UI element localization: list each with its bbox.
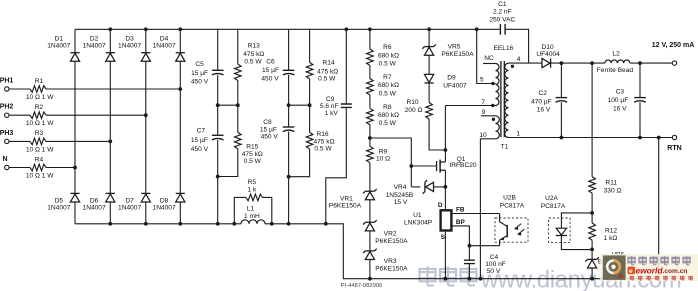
junction node B feedback: [590, 248, 594, 252]
wire R9 to VR1: [369, 163, 371, 192]
svg-text:450 V: 450 V: [191, 146, 209, 153]
svg-text:VR1: VR1: [340, 195, 353, 202]
wire tie C6-R14: [289, 104, 310, 106]
wire pin10 to bottom line: [479, 139, 481, 279]
svg-text:VR4: VR4: [394, 184, 407, 191]
wire R7-R8: [369, 95, 371, 108]
svg-text:475 kΩ: 475 kΩ: [313, 138, 334, 145]
svg-text:0.5 W: 0.5 W: [244, 158, 262, 165]
resistor R10: [426, 103, 433, 120]
svg-text:450 V: 450 V: [261, 75, 279, 82]
diode D5: [70, 192, 79, 194]
svg-text:1N4007: 1N4007: [118, 43, 141, 50]
wire R16 bottom join: [289, 149, 310, 177]
svg-text:450 V: 450 V: [261, 134, 279, 141]
wire gate wire: [411, 165, 436, 167]
svg-text:250 VAC: 250 VAC: [489, 16, 515, 23]
wire PH3 to R3: [9, 140, 30, 142]
svg-text:475 kΩ: 475 kΩ: [317, 68, 338, 75]
zener VR1: [365, 190, 374, 192]
wire T1 pin 5 to top rail: [477, 29, 496, 83]
svg-text:1 k: 1 k: [248, 186, 257, 193]
inductor L2 coil: [605, 60, 630, 63]
wire D5 anode down: [74, 202, 76, 224]
resistor R9: [367, 146, 374, 163]
terminal 12V output: [672, 61, 676, 65]
svg-text:R4: R4: [35, 156, 44, 163]
svg-text:R13: R13: [248, 43, 260, 50]
resistor R11: [589, 177, 596, 194]
zener VR2: [365, 221, 374, 223]
junction top rail node D2: [108, 27, 112, 31]
wire R5 left leg: [234, 197, 246, 223]
wire top rail left of C1: [75, 28, 500, 30]
resistor R2: [30, 112, 46, 119]
wire C2 top lead: [560, 63, 562, 98]
wire C6 top: [288, 29, 290, 70]
svg-text:1N4007: 1N4007: [153, 43, 176, 50]
resistor R14: [306, 62, 313, 79]
svg-text:1N4007: 1N4007: [83, 43, 106, 50]
svg-text:16 V: 16 V: [613, 105, 627, 112]
svg-text:UF4004: UF4004: [536, 51, 560, 58]
junction node N-bridge: [73, 166, 77, 170]
watermark dianyuan text: [420, 267, 682, 291]
svg-text:330 Ω: 330 Ω: [604, 188, 622, 195]
svg-text:200 Ω: 200 Ω: [405, 107, 423, 114]
wire VR4 anode to source: [434, 186, 446, 188]
junction node RTN drop: [657, 136, 661, 140]
svg-text:1 kV: 1 kV: [325, 110, 339, 117]
svg-text:10 Ω 1 W: 10 Ω 1 W: [26, 94, 54, 101]
svg-text:10 Ω: 10 Ω: [376, 156, 390, 163]
svg-text:IRFBC20: IRFBC20: [449, 162, 476, 169]
resistor R15: [235, 132, 242, 149]
svg-text:100 nF: 100 nF: [485, 261, 506, 268]
wire R6 top: [369, 29, 371, 49]
svg-text:R5: R5: [248, 179, 257, 186]
svg-text:PC817A: PC817A: [541, 203, 566, 210]
wire R1 to bridge column: [46, 88, 180, 90]
svg-text:0.5 W: 0.5 W: [314, 146, 332, 153]
junction node VR4/source: [444, 185, 448, 189]
wire R5 right leg: [263, 197, 272, 223]
svg-text:RTN: RTN: [667, 145, 681, 152]
wire C4 top: [468, 246, 470, 261]
junction node C4 bottom: [468, 277, 472, 281]
svg-text:1N4007: 1N4007: [118, 204, 141, 211]
svg-text:680 kΩ: 680 kΩ: [378, 52, 399, 59]
junction node C2 bottom: [560, 136, 564, 140]
svg-text:D9: D9: [447, 74, 456, 81]
svg-text:R9: R9: [379, 148, 388, 155]
wire U2A cathode to node B: [561, 236, 592, 250]
wire gate branch to VR4 cathode: [411, 186, 420, 188]
wire R10 to drain node: [429, 119, 445, 150]
junction top rail node D4: [178, 27, 182, 31]
junction bottom rail node D6: [108, 222, 112, 226]
capacitor C6 symbol: [283, 69, 295, 71]
wire L2 to output terminal: [630, 62, 672, 64]
wire T1 pin 4 to D10: [509, 62, 543, 64]
wire tie C5-R13: [218, 104, 238, 106]
diode D8: [176, 192, 185, 194]
wire node A to U2A anode: [561, 213, 592, 228]
junction node A feedback: [590, 211, 594, 215]
resistor R7: [367, 79, 374, 96]
junction bottom rail node D8: [178, 222, 182, 226]
capacitor C1: [500, 24, 505, 35]
svg-text:R3: R3: [35, 130, 44, 137]
junction node R8/R9 tap: [368, 136, 372, 140]
junction bottom rail node D7: [144, 222, 148, 226]
junction node BP/C4: [468, 244, 472, 248]
svg-text:U2A: U2A: [545, 195, 558, 202]
svg-text:.com.cn: .com.cn: [663, 268, 688, 275]
svg-text:C3: C3: [616, 88, 625, 95]
svg-text:PI-4487-082906: PI-4487-082906: [341, 283, 383, 289]
svg-text:1N4007: 1N4007: [83, 204, 106, 211]
diode D9: [425, 82, 434, 84]
svg-text:BP: BP: [456, 219, 466, 226]
resistor R16: [306, 132, 313, 149]
terminal RTN: [672, 135, 676, 139]
wire C8 down to rail: [288, 132, 290, 224]
terminal PH1: [5, 87, 9, 91]
junction node C8 rail: [287, 222, 291, 226]
svg-text:e: e: [629, 268, 633, 275]
svg-text:R2: R2: [35, 104, 44, 111]
svg-text:0.5 W: 0.5 W: [379, 90, 397, 97]
svg-text:9: 9: [482, 109, 486, 116]
svg-text:1N4007: 1N4007: [153, 204, 176, 211]
junction node C7/R15 join: [216, 175, 220, 179]
zener VR3: [365, 250, 374, 252]
svg-text:R11: R11: [605, 180, 617, 187]
junction node C5/C7: [216, 103, 220, 107]
svg-text:10: 10: [479, 132, 487, 139]
wire C9 top: [345, 29, 347, 104]
svg-text:450 V: 450 V: [191, 78, 209, 85]
svg-text:R16: R16: [316, 131, 328, 138]
wire PH2 to R2: [9, 114, 30, 116]
svg-text:PC817A: PC817A: [500, 203, 525, 210]
svg-text:C6: C6: [266, 59, 275, 66]
wire C7 down to rail: [217, 140, 219, 224]
svg-text:15 µF: 15 µF: [191, 137, 208, 144]
wire R13 top: [237, 29, 239, 64]
svg-text:C5: C5: [195, 61, 204, 68]
svg-text:R14: R14: [323, 60, 335, 67]
wire D2 cathode up: [109, 29, 111, 52]
wire primary negative rail left: [75, 223, 241, 225]
wire VR6 to bottom line: [591, 268, 593, 279]
wire top rail through C1 to secondary: [505, 29, 528, 63]
wire R14 to R16: [309, 79, 311, 132]
svg-text:1: 1: [516, 131, 520, 138]
wire R6-R7: [369, 66, 371, 79]
svg-text:PH1: PH1: [0, 77, 13, 84]
svg-text:U1: U1: [413, 212, 422, 219]
wire R13 to R15: [237, 81, 239, 133]
svg-text:475 kΩ: 475 kΩ: [243, 51, 264, 58]
svg-text:U2B: U2B: [503, 194, 516, 201]
junction node S bottom: [444, 277, 448, 281]
svg-text:15 µF: 15 µF: [262, 67, 279, 74]
svg-text:D10: D10: [542, 44, 554, 51]
wire bridge column 3 middle: [145, 61, 147, 193]
junction node C3 bottom: [638, 136, 642, 140]
junction node R11 top: [590, 61, 594, 65]
zener VR6: [588, 258, 597, 260]
T1 polarity dots: [491, 82, 494, 85]
resistor R13: [235, 64, 242, 81]
zener VR5: [425, 46, 434, 48]
T1 primary winding 2-7: [496, 64, 500, 106]
wire VR1-VR2: [369, 200, 371, 223]
svg-text:D1: D1: [55, 35, 64, 42]
svg-text:EEL16: EEL16: [493, 45, 513, 52]
svg-text:1 kΩ: 1 kΩ: [604, 235, 618, 242]
svg-text:P6KE150A: P6KE150A: [375, 238, 408, 245]
svg-text:5.6 nF: 5.6 nF: [320, 103, 339, 110]
capacitor C7 symbol: [212, 134, 224, 136]
svg-text:R1: R1: [35, 78, 44, 85]
wire BP node to opto emitter: [469, 245, 499, 247]
wire D8 anode down: [179, 202, 181, 224]
diode D6: [106, 192, 115, 194]
svg-text:680 kΩ: 680 kΩ: [378, 82, 399, 89]
svg-text:0.5 W: 0.5 W: [244, 59, 262, 66]
wire R15 bottom join: [218, 149, 238, 177]
junction node C6/C8: [287, 103, 291, 107]
junction node C9 top rail: [344, 27, 348, 31]
svg-text:100 µF: 100 µF: [608, 97, 629, 104]
junction node L1/R5 right: [270, 222, 274, 226]
wire primary negative rail to bottom line: [265, 224, 659, 279]
svg-text:15 µF: 15 µF: [260, 127, 277, 134]
wire C2 bottom lead: [560, 102, 562, 137]
junction node VR6 bottom: [590, 277, 594, 281]
svg-text:UF4007: UF4007: [443, 82, 467, 89]
junction top rail node D3: [144, 27, 148, 31]
wire bridge column 1 middle: [74, 61, 76, 193]
svg-text:12 V, 250 mA: 12 V, 250 mA: [652, 42, 695, 49]
svg-text:7: 7: [481, 99, 485, 106]
junction node C7 rail: [216, 222, 220, 226]
resistor R12: [589, 223, 596, 240]
svg-text:D3: D3: [125, 35, 134, 42]
svg-text:VR3: VR3: [384, 258, 397, 265]
wire R11 to R12: [591, 193, 593, 223]
junction node VR3 bottom: [368, 277, 372, 281]
svg-text:VR2: VR2: [384, 231, 397, 238]
capacitor C8 symbol: [283, 126, 295, 128]
junction node C2 top: [560, 61, 564, 65]
capacitor C2 symbol: [556, 97, 568, 99]
wire C3 bottom lead: [639, 102, 641, 137]
diode D1: [70, 52, 79, 54]
wire VR2-VR3: [369, 231, 371, 251]
junction node C8/R16 join: [287, 175, 291, 179]
wire D4 cathode up: [179, 29, 181, 52]
wire T1 pin 9 stub: [481, 115, 496, 117]
capacitor C5 symbol: [212, 69, 224, 71]
T1 core: [501, 61, 504, 137]
wire VR3 to bottom line: [369, 260, 371, 279]
junction node PH2-bridge: [144, 113, 148, 117]
junction node VR5 top rail: [427, 27, 431, 31]
svg-text:L2: L2: [612, 51, 620, 58]
zener VR4: [424, 182, 426, 191]
svg-text:4: 4: [517, 56, 521, 63]
resistor R5: [246, 194, 263, 201]
diode D3: [141, 52, 150, 54]
svg-text:1N4007: 1N4007: [47, 43, 70, 50]
terminal PH2: [5, 113, 9, 117]
wire T1 pin 10 stub: [480, 138, 495, 140]
T1 secondary winding 4-1: [505, 63, 509, 137]
wire C5 to C7: [217, 75, 219, 135]
wire drain stub: [444, 150, 446, 162]
svg-text:PH2: PH2: [0, 104, 13, 111]
diode D7: [141, 192, 150, 194]
resistor R1: [30, 86, 46, 93]
wire R2 to bridge column: [46, 114, 146, 116]
wire R8-R9: [369, 125, 371, 146]
wire source stub: [444, 170, 446, 187]
svg-text:LNK304P: LNK304P: [404, 219, 433, 226]
inductor L1 coil: [241, 220, 265, 224]
capacitor C4: [464, 260, 475, 263]
svg-text:C1: C1: [498, 1, 507, 8]
resistor R6: [367, 49, 374, 66]
svg-text:D4: D4: [160, 35, 169, 42]
svg-text:S: S: [441, 234, 446, 241]
capacitor C3 symbol: [634, 97, 646, 99]
wire D10 to L2: [551, 62, 605, 64]
LED U2A symbol: [556, 228, 566, 235]
svg-text:P6KE150A: P6KE150A: [375, 265, 408, 272]
terminal N: [5, 165, 9, 169]
wire N to R4: [9, 167, 30, 169]
svg-text:16 V: 16 V: [537, 107, 551, 114]
wire T1 pin 7 stub: [445, 105, 495, 107]
wire C9 bottom jog to rail: [326, 107, 347, 223]
wire secondary return rail: [509, 137, 673, 139]
svg-text:NC: NC: [484, 55, 494, 62]
T1 bias winding 9-10: [496, 116, 500, 139]
wire T1 NC pin stub: [483, 63, 496, 65]
svg-text:15 V: 15 V: [394, 199, 408, 206]
junction node C9 rail: [324, 222, 328, 226]
svg-text:D: D: [438, 202, 443, 209]
svg-text:D2: D2: [90, 35, 99, 42]
svg-text:P6KE150A: P6KE150A: [441, 51, 474, 58]
resistor R3: [30, 138, 46, 145]
svg-text:C4: C4: [490, 254, 499, 261]
wire RTN drop to bottom line: [658, 138, 660, 279]
junction node R14/R16: [308, 103, 312, 107]
wire R14 top: [309, 29, 311, 62]
svg-text:475 kΩ: 475 kΩ: [242, 151, 263, 158]
svg-text:1N5245B: 1N5245B: [386, 192, 414, 199]
svg-text:10 Ω 1 W: 10 Ω 1 W: [26, 146, 54, 153]
wire D6 anode down: [109, 202, 111, 224]
wire C4 bottom: [468, 264, 470, 279]
junction node pin10 bottom: [479, 277, 483, 281]
wire R3 to bridge column: [46, 140, 110, 142]
junction node pin5 rail: [475, 27, 479, 31]
svg-text:Ferrite Bead: Ferrite Bead: [597, 67, 634, 74]
wire FB wire to opto: [451, 213, 499, 215]
svg-text:15 µF: 15 µF: [191, 70, 208, 77]
wire R12 to VR6: [591, 240, 593, 259]
capacitor C9: [341, 104, 352, 107]
svg-text:0.5 W: 0.5 W: [379, 120, 397, 127]
IC U1 LNK304P: [441, 210, 452, 230]
svg-text:R12: R12: [605, 227, 617, 234]
svg-text:L1: L1: [247, 206, 255, 213]
svg-text:eworld: eworld: [636, 265, 664, 275]
resistor R4: [30, 164, 46, 171]
svg-text:FB: FB: [456, 207, 465, 214]
wire tap to gate branch: [370, 138, 411, 187]
diode D4: [176, 52, 185, 54]
wire bridge column 2 middle: [109, 61, 111, 193]
wire bridge column 4 middle: [179, 61, 181, 193]
diode D10: [550, 59, 552, 68]
wire D3 cathode up: [145, 29, 147, 52]
svg-text:N: N: [2, 156, 7, 163]
svg-text:PH3: PH3: [0, 130, 13, 137]
svg-text:P6KE150A: P6KE150A: [329, 202, 362, 209]
wire R11 top lead crossing RTN: [591, 63, 593, 177]
junction node C3 top: [638, 61, 642, 65]
wire PH1 to R1: [9, 88, 30, 90]
junction node PH3-bridge: [108, 140, 112, 144]
svg-text:50 V: 50 V: [487, 268, 501, 275]
svg-text:0.5 W: 0.5 W: [379, 61, 397, 68]
transistor Q1: [437, 160, 446, 173]
svg-text:2.2 nF: 2.2 nF: [493, 9, 512, 16]
svg-text:R8: R8: [383, 104, 392, 111]
svg-text:5: 5: [480, 77, 484, 84]
svg-text:C2: C2: [538, 90, 547, 97]
wire C5 top: [217, 29, 219, 70]
svg-text:470 µF: 470 µF: [531, 98, 552, 105]
junction node gate branch: [409, 164, 413, 168]
junction node L1/R5 left: [232, 222, 236, 226]
svg-text:C7: C7: [197, 128, 206, 135]
diode D2: [106, 52, 115, 54]
junction node drain/R10: [444, 148, 448, 152]
wire D9 to R10: [428, 83, 430, 103]
wire VR4 node to U1 D pin: [444, 187, 446, 210]
wire R4 to bridge column: [46, 167, 75, 169]
wire C3 top lead: [639, 63, 641, 98]
svg-text:R10: R10: [406, 99, 418, 106]
junction node PH1-bridge: [178, 87, 182, 91]
wire U1 S pin to bottom line: [444, 231, 446, 279]
wire rail to VR5: [428, 29, 430, 46]
svg-text:R7: R7: [383, 74, 392, 81]
svg-text:1N4007: 1N4007: [47, 204, 70, 211]
svg-text:T1: T1: [501, 144, 509, 151]
svg-text:680 kΩ: 680 kΩ: [378, 112, 399, 119]
junction node R6 top rail: [368, 27, 372, 31]
wire C6 to C8: [288, 75, 290, 127]
